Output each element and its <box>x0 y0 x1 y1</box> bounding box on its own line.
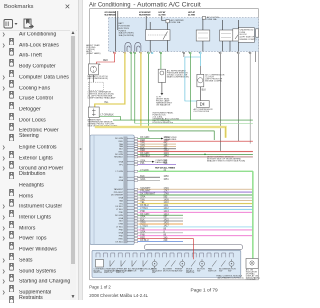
svg-text:1416: 1416 <box>164 223 170 225</box>
svg-text:1409: 1409 <box>164 199 170 201</box>
wire: feed to relay K1 <box>145 16 147 30</box>
svg-text:COMPT BEHIND HEADLAMP: COMPT BEHIND HEADLAMP <box>88 97 117 100</box>
svg-text:PNK: PNK <box>140 211 145 213</box>
svg-text:LT BLU: LT BLU <box>140 208 148 210</box>
wire stub right edge <box>255 52 257 63</box>
pin row GRA 597 <box>134 217 137 219</box>
small box at page edge <box>256 29 259 37</box>
svg-text:1746: 1746 <box>164 188 170 190</box>
svg-text:SWITCH: SWITCH <box>186 272 195 274</box>
pin row GRA 8 <box>134 232 137 234</box>
svg-text:PPL/WHT: PPL/WHT <box>140 191 151 193</box>
svg-text:MOTOR SW: MOTOR SW <box>163 270 175 272</box>
svg-text:LT BLU: LT BLU <box>116 209 123 211</box>
svg-text:TAN/WHT: TAN/WHT <box>140 187 151 190</box>
svg-text:GRA: GRA <box>118 179 123 182</box>
svg-text:(A/C COMPRESSOR): (A/C COMPRESSOR) <box>88 77 109 80</box>
svg-text:SWITCH: SWITCH <box>208 270 217 272</box>
svg-text:DK GRN: DK GRN <box>140 137 149 139</box>
pin row LT BLU 1412 <box>139 208 253 210</box>
pin row TAN/WHT 1746 <box>134 188 137 190</box>
pin row RED 240 <box>134 238 137 240</box>
svg-text:ALL TIMES: ALL TIMES <box>188 14 195 17</box>
svg-text:1747: 1747 <box>164 191 170 193</box>
svg-text:PNK: PNK <box>119 235 124 237</box>
svg-text:ENGINE COMPT): ENGINE COMPT) <box>205 80 222 82</box>
svg-text:DK GRN: DK GRN <box>140 214 149 216</box>
pin row BLK 1415 <box>134 220 137 222</box>
A/C refrigerant pressure sensor <box>160 54 162 69</box>
pin row TAN 443 <box>134 143 137 145</box>
svg-text:1411: 1411 <box>164 205 170 207</box>
svg-text:A: A <box>99 63 101 66</box>
module: HVAC control head <box>92 250 241 277</box>
svg-text:RED: RED <box>140 150 145 152</box>
fuse sym top <box>202 17 205 20</box>
svg-text:FUSE 10A: FUSE 10A <box>171 21 181 24</box>
svg-text:PPL: PPL <box>140 163 145 165</box>
connector pins row under fuse block <box>114 52 115 53</box>
bus wire pale green y123.4 <box>135 122 253 124</box>
pin row DK GRN 1049 <box>134 138 137 140</box>
stub hooks inside control head <box>96 253 233 257</box>
svg-text:CLUTCH DIODE: CLUTCH DIODE <box>194 111 210 113</box>
wire DK GRN drop x148.6 <box>148 54 150 131</box>
wire LT GRN/BLK from sensor <box>99 117 120 121</box>
svg-text:LT GRN: LT GRN <box>116 171 124 173</box>
svg-text:2008 Chevrolet Malibu L4-2.4L: 2008 Chevrolet Malibu L4-2.4L <box>89 293 148 298</box>
pin row YEL 1410 <box>139 203 253 205</box>
wire: feed into fuse block <box>115 11 117 52</box>
wire BLK clutch to diode <box>199 87 201 101</box>
connector strip of HVAC control head <box>145 245 243 250</box>
bus wire YEL y127 (thick) <box>95 127 226 138</box>
svg-text:ON RADIATOR: ON RADIATOR <box>156 104 171 107</box>
svg-text:RED: RED <box>119 141 124 143</box>
indicator: A/C ON lamp box <box>246 259 258 269</box>
bus wire DK GRN y131 <box>149 131 215 140</box>
svg-text:Page 1 of 79: Page 1 of 79 <box>191 288 219 294</box>
svg-text:BLK: BLK <box>202 90 207 92</box>
svg-text:PPL/WHT: PPL/WHT <box>114 192 124 194</box>
pin row GRA 1051 <box>134 179 137 181</box>
svg-text:AIR SW: AIR SW <box>175 269 182 272</box>
svg-text:PNK: PNK <box>140 234 145 236</box>
svg-text:1748: 1748 <box>164 194 170 196</box>
pin row DK GRN/WHT 1748 <box>139 194 253 196</box>
wire: feed to clutch fuse <box>162 16 166 21</box>
ambient air temperature sensor <box>88 107 99 118</box>
jumper loops inside fuse block <box>125 42 141 51</box>
svg-text:SW: SW <box>219 270 222 272</box>
pin row PPL/WHT 1747 <box>139 191 253 193</box>
svg-text:RED: RED <box>119 151 124 153</box>
svg-text:RELAY ENERGIZED: RELAY ENERGIZED <box>105 14 117 17</box>
pin row RED 1342 <box>134 140 137 142</box>
diagram border frame <box>90 9 259 280</box>
bus wire LT GRN/BLK y120 <box>113 119 253 121</box>
module: HVAC control module (blue box) <box>90 135 134 245</box>
svg-text:ORN: ORN <box>118 224 123 226</box>
motor symbols <box>152 261 157 266</box>
svg-text:BLK: BLK <box>140 176 145 178</box>
pin row TAN 1409 <box>134 200 137 202</box>
dashed box generator control <box>88 82 103 90</box>
svg-text:YEL: YEL <box>104 102 109 104</box>
svg-text:SW: SW <box>228 270 231 272</box>
wire LT GRN drop x131 <box>130 54 132 120</box>
label box underhood fuse block name <box>238 28 254 43</box>
svg-text:SW: SW <box>140 270 143 272</box>
pin row RED/BLK 1442 <box>134 156 137 158</box>
svg-text:DK GRN: DK GRN <box>115 215 124 217</box>
svg-text:1342: 1342 <box>164 150 170 152</box>
svg-text:SWITCH: SWITCH <box>128 270 137 272</box>
wire RED feed to compressor clutch <box>97 54 115 64</box>
svg-text:1342: 1342 <box>164 140 170 142</box>
relay K4 with switch <box>233 29 244 41</box>
svg-text:CLUSTER: CLUSTER <box>246 279 256 281</box>
switch symbols <box>110 261 148 267</box>
svg-text:DK BLU: DK BLU <box>115 206 123 208</box>
svg-text:GRA: GRA <box>118 232 123 235</box>
svg-text:DK BLU: DK BLU <box>140 240 149 242</box>
svg-text:BLK: BLK <box>119 221 124 223</box>
underhood fuse block (dashed box) <box>109 18 259 52</box>
pin row DK BLU 229 <box>134 241 137 243</box>
diode A/C compressor clutch diode <box>197 101 209 108</box>
A/C compressor clutch (left) <box>88 64 98 75</box>
svg-text:(RIGHT HAND): (RIGHT HAND) <box>86 52 101 55</box>
connector rail C1 inside module <box>124 137 127 243</box>
svg-text:PNK: PNK <box>140 229 145 231</box>
svg-text:BLK: BLK <box>119 149 124 151</box>
svg-text:LT GRN/BLK: LT GRN/BLK <box>101 115 115 117</box>
pin row BLK 151 <box>134 148 137 150</box>
svg-text:SW: SW <box>197 270 200 272</box>
svg-text:DK BLU: DK BLU <box>140 205 149 207</box>
svg-text:1415: 1415 <box>164 220 170 222</box>
wire RED drop into control head <box>193 239 195 260</box>
pin row GRA 595 <box>134 161 137 163</box>
svg-text:GRA: GRA <box>140 178 145 181</box>
svg-text:1414: 1414 <box>164 214 170 216</box>
pin row LT GRN 24 <box>139 170 253 172</box>
pin row TAN 443 <box>134 145 137 147</box>
svg-text:BRACKET TRIM TO RIGHT SIDE PLN: BRACKET TRIM TO RIGHT SIDE PLNR) <box>207 160 245 163</box>
svg-text:RED/BLK: RED/BLK <box>140 156 150 158</box>
svg-text:GRA: GRA <box>140 196 145 199</box>
svg-text:- Automatic A/C Circuit: - Automatic A/C Circuit <box>133 2 201 9</box>
svg-text:ORN: ORN <box>140 223 145 225</box>
pin row DK BLU 1411 <box>134 206 137 208</box>
svg-text:GRA: GRA <box>118 217 123 220</box>
wire LT BLU to clutch relay circuit <box>185 54 201 101</box>
svg-text:TAN: TAN <box>119 199 124 202</box>
pin row ORN 1416 <box>139 223 183 225</box>
svg-text:GRA: GRA <box>140 159 145 162</box>
svg-text:ALL TIMES: ALL TIMES <box>159 14 166 17</box>
svg-text:1051: 1051 <box>164 179 170 181</box>
pin row BLK 1050 <box>134 176 137 178</box>
svg-text:Page 1 of 2: Page 1 of 2 <box>89 284 111 289</box>
svg-text:1410: 1410 <box>164 202 170 204</box>
svg-text:TAN/WHT: TAN/WHT <box>114 188 124 191</box>
svg-text:BLK: BLK <box>119 177 124 179</box>
svg-text:DK BLU: DK BLU <box>115 241 123 243</box>
svg-text:RED: RED <box>119 238 124 240</box>
long vertical wires right side <box>183 54 185 57</box>
pin row RED 1342 <box>139 151 253 153</box>
svg-text:SWITCH: SWITCH <box>104 272 113 274</box>
svg-text:RED: RED <box>103 60 108 62</box>
wire YEL drop x140.9 <box>140 54 142 127</box>
svg-text:GRA: GRA <box>140 230 145 233</box>
wires relays K2-K4 <box>203 19 239 51</box>
mode switch box <box>96 260 104 268</box>
svg-text:1412: 1412 <box>164 208 170 210</box>
svg-text:NEAR COMPRESSOR): NEAR COMPRESSOR) <box>167 75 189 78</box>
svg-text:SWITCH: SWITCH <box>116 272 125 274</box>
pin row PNK 89 <box>139 235 253 237</box>
ground G107 below sensor <box>161 82 163 93</box>
wire LT GRN down right edge to indicator <box>252 171 254 258</box>
svg-text:FUSE 10A: FUSE 10A <box>207 18 217 21</box>
svg-text:Air Conditioning: Air Conditioning <box>89 2 131 9</box>
svg-text:30A (RH DRIVE): 30A (RH DRIVE) <box>119 34 135 37</box>
wire LT GRN drop x134.8 <box>134 54 136 124</box>
svg-text:DK GRN: DK GRN <box>115 138 124 140</box>
wire to ECM dashed box <box>92 75 94 82</box>
svg-text:LT BLU: LT BLU <box>140 226 148 228</box>
svg-text:RED/BLK: RED/BLK <box>114 157 124 159</box>
pin row DK GRN 1049 <box>134 153 137 155</box>
svg-text:RED: RED <box>140 140 145 142</box>
relay K1 A/C compressor clutch relay <box>146 30 170 41</box>
svg-text:LT BLU: LT BLU <box>116 227 123 229</box>
svg-text:RELAY ENERGIZED: RELAY ENERGIZED <box>139 14 151 17</box>
svg-text:1050: 1050 <box>164 176 170 178</box>
svg-text:BLK: BLK <box>140 220 145 222</box>
svg-text:ENGINE COMPT): ENGINE COMPT) <box>240 39 257 41</box>
svg-text:BLK: BLK <box>140 147 145 149</box>
pin row PNK 1413 <box>139 211 253 213</box>
fuse A/C clutch fuse 10A <box>166 20 169 23</box>
svg-text:1417: 1417 <box>164 226 170 228</box>
wire YEL ambient sensor <box>95 54 125 107</box>
svg-text:1413: 1413 <box>164 211 170 213</box>
svg-text:PNK: PNK <box>119 230 124 232</box>
svg-text:RED: RED <box>140 237 145 239</box>
pin row PPL 599 <box>134 164 137 166</box>
svg-text:SW: SW <box>152 272 155 274</box>
pin row DK GRN 1414 <box>134 214 137 216</box>
wire relay to fuse <box>150 22 167 52</box>
svg-text:1442: 1442 <box>164 156 170 158</box>
pin row LT BLU 1417 <box>134 226 137 228</box>
svg-text:GRA: GRA <box>140 216 145 219</box>
svg-text:DK GRN/WH: DK GRN/WH <box>111 195 124 197</box>
pin row PNK 89 <box>139 229 253 231</box>
svg-text:PNK: PNK <box>119 212 124 214</box>
svg-text:GRA: GRA <box>118 160 123 163</box>
A/C compressor clutch coil <box>197 74 204 87</box>
pin row GRA 595 <box>134 197 137 199</box>
svg-text:(A/C/HEATER CONTROLS): (A/C/HEATER CONTROLS) <box>218 277 244 280</box>
relay K2 <box>196 30 210 41</box>
svg-text:TAN: TAN <box>140 198 145 201</box>
wire: second feed pair <box>117 11 119 30</box>
svg-text:SWITCH: SWITCH <box>94 272 103 274</box>
relay K3 <box>220 30 233 41</box>
svg-text:DK GRN/WHT: DK GRN/WHT <box>140 194 155 196</box>
svg-text:LT GRN: LT GRN <box>140 170 149 172</box>
svg-text:YEL: YEL <box>140 202 145 204</box>
svg-text:GRA: GRA <box>118 197 123 200</box>
